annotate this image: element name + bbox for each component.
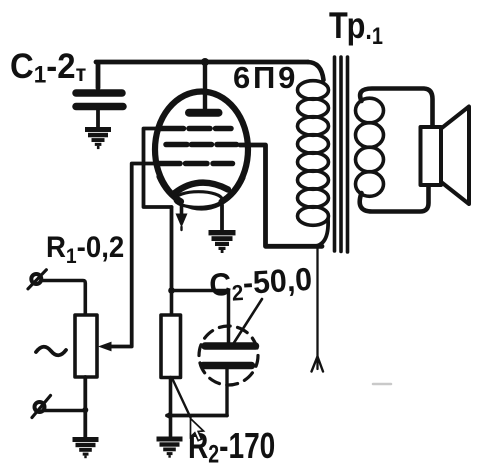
wire B+ rail with arrow tip bbox=[316, 248, 318, 369]
anode plate bar bbox=[189, 109, 219, 117]
wire input bottom to junction bbox=[44, 409, 85, 413]
wire cathode lead with arrow bbox=[180, 201, 184, 214]
node cathode junction bbox=[168, 287, 175, 294]
wire junction down to R2 bbox=[170, 291, 174, 315]
transformer core laminations bbox=[333, 57, 337, 251]
label R2-170 with pointer bbox=[188, 426, 275, 468]
tube U1 envelope 6P9 bbox=[155, 92, 248, 208]
wire R1 bottom to ground bbox=[83, 377, 87, 437]
node A (plate junction on top bus) bbox=[201, 58, 209, 66]
wire top bus from C1 to transformer primary bbox=[96, 62, 308, 88]
transformer Tr1 label bbox=[329, 5, 383, 49]
ground (below C1) bbox=[85, 127, 111, 149]
tube envelope shoulder arcs redraw bbox=[160, 177, 243, 202]
label R1-0,2 bbox=[46, 231, 124, 268]
label C2-50,0 with pointer bbox=[208, 261, 313, 307]
transformer Tr1 primary winding bbox=[308, 62, 324, 80]
cathode arc bbox=[174, 183, 228, 194]
wire screen grid to B+ rail bbox=[240, 145, 322, 246]
wire control grid to R1 wiper bbox=[111, 164, 156, 347]
ground (below R1) bbox=[73, 437, 99, 458]
ground (below tube) bbox=[209, 230, 236, 253]
input terminal top bbox=[31, 274, 41, 284]
svg-text:C1-2т: C1-2т bbox=[10, 47, 86, 88]
capacitor C2 plates bbox=[205, 342, 256, 350]
wire plate lead bbox=[203, 62, 207, 109]
AC source tilde bbox=[36, 347, 66, 356]
grid g3 (top dashed row) bbox=[161, 126, 232, 132]
svg-text:6П9: 6П9 bbox=[233, 60, 298, 95]
capacitor C2 dashed circle bbox=[199, 326, 258, 385]
node bottom-left junction bbox=[82, 407, 88, 413]
wire input top to R1 bbox=[43, 281, 86, 316]
svg-text:Тр.1: Тр.1 bbox=[329, 5, 383, 49]
label C1-2T bbox=[10, 47, 86, 88]
ground (below R2) bbox=[157, 437, 183, 458]
grid g1 (bottom dashed row) bbox=[158, 161, 233, 167]
node R2 ground junction bbox=[167, 413, 173, 419]
transformer Tr1 secondary winding bbox=[360, 89, 432, 128]
speaker LS1 voice coil box bbox=[421, 127, 442, 185]
speaker LS1 cone bbox=[441, 107, 470, 205]
wire R2 bottom to ground bbox=[169, 378, 173, 438]
potentiometer R1 body bbox=[75, 315, 97, 377]
svg-text:R1-0,2: R1-0,2 bbox=[46, 231, 124, 268]
label 6P9 bbox=[233, 60, 298, 95]
mouse cursor bbox=[191, 419, 204, 441]
wire junction to C2 top bbox=[172, 291, 229, 344]
wire bottom connecting C2 to R2 ground node bbox=[167, 414, 227, 418]
smudge mark bbox=[373, 383, 391, 386]
wiper arrowhead into R1 bbox=[98, 342, 112, 352]
grid g2 (middle dashed row) bbox=[166, 142, 237, 148]
wire suppressor bracket (g3 to cathode line) bbox=[144, 129, 172, 208]
wire cathode line down to R2/C2 node bbox=[170, 207, 174, 291]
input terminal bottom bbox=[35, 402, 45, 412]
resistor R2 body bbox=[161, 315, 181, 378]
capacitor C1 bbox=[76, 89, 122, 97]
wire tube center lead to ground bbox=[220, 205, 224, 231]
wire C2 bottom lead bbox=[225, 369, 228, 416]
tube base inner ellipse bbox=[175, 192, 222, 208]
